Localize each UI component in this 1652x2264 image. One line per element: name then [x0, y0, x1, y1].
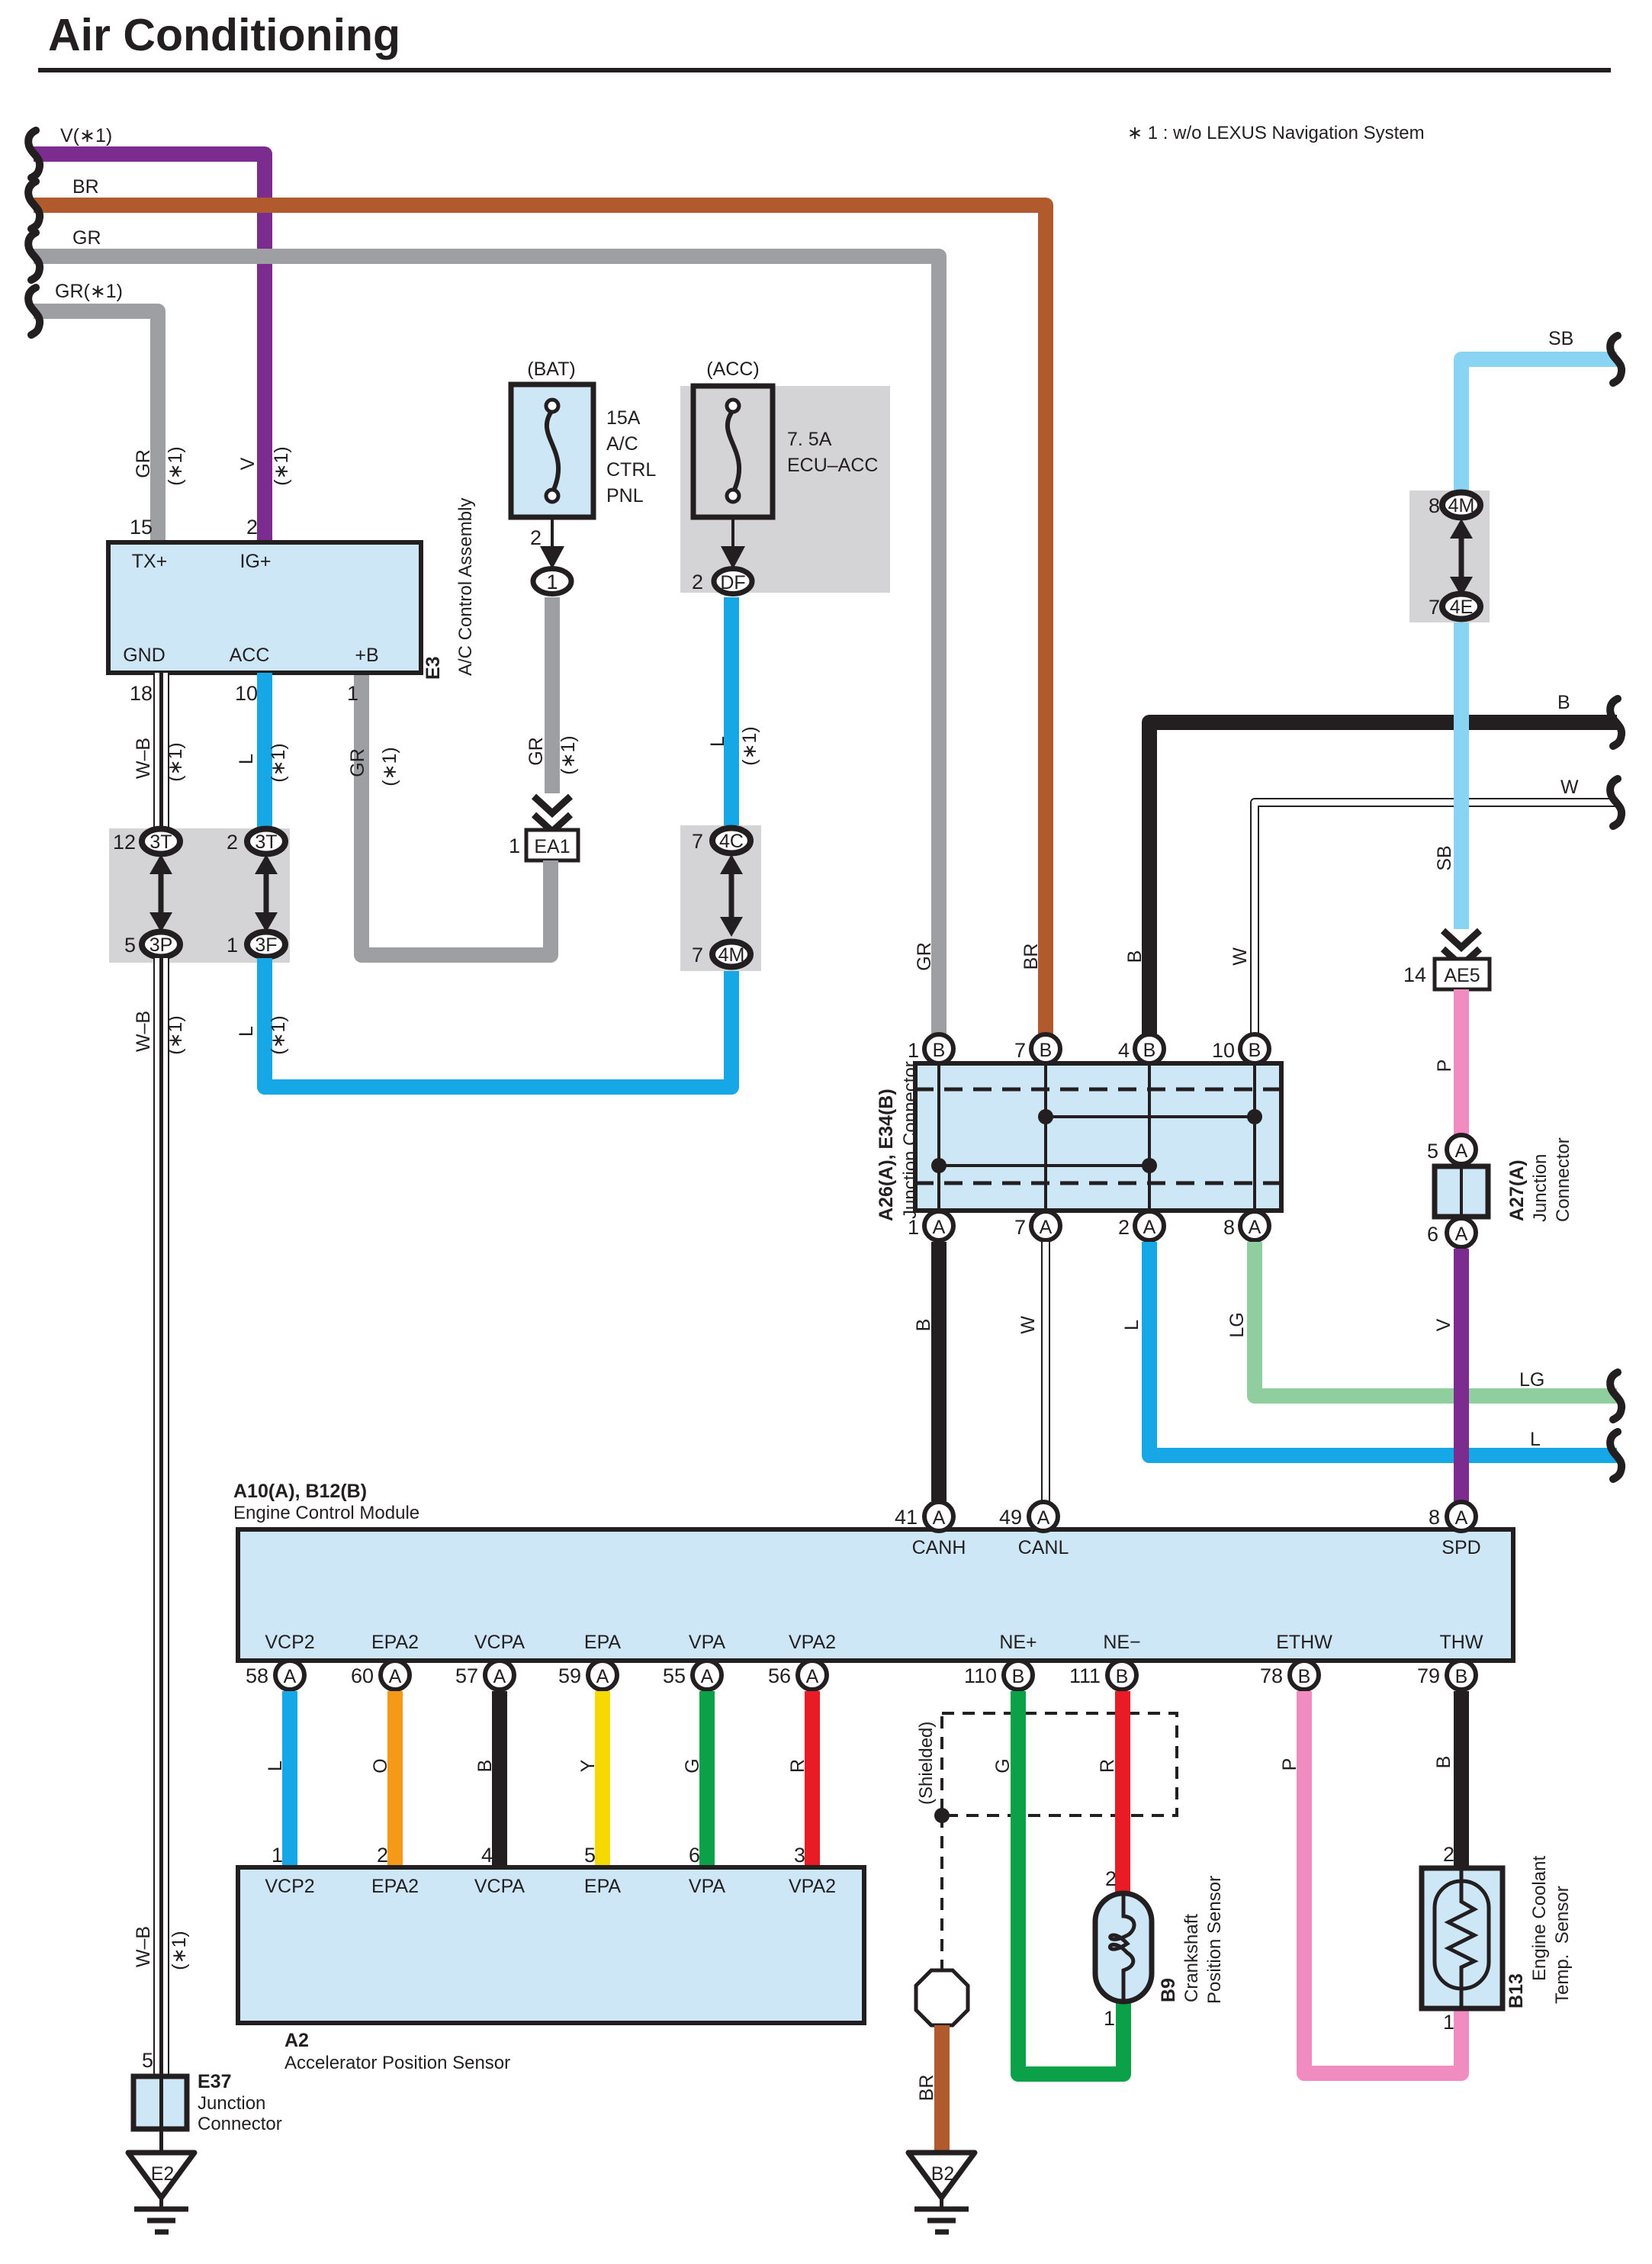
svg-text:IG+: IG+: [240, 551, 272, 572]
svg-text:2: 2: [1443, 1843, 1454, 1866]
svg-text:B: B: [1557, 692, 1570, 713]
svg-text:A10(A), B12(B): A10(A), B12(B): [233, 1481, 367, 1502]
svg-text:3P: 3P: [149, 934, 173, 956]
svg-text:B: B: [1116, 1666, 1129, 1687]
fuse 15A A/C CTRL PNL (BAT): [511, 359, 656, 517]
svg-text:BR: BR: [1020, 944, 1042, 970]
svg-text:79: 79: [1417, 1664, 1440, 1687]
svg-text:E3: E3: [423, 656, 444, 680]
svg-text:A/C Control Assembly: A/C Control Assembly: [455, 498, 476, 676]
wire W-B from 5(3P) down to E37: [133, 958, 190, 2076]
svg-text:(Shielded): (Shielded): [916, 1722, 937, 1805]
arrow between 4C and 4M: [720, 854, 743, 937]
svg-text:R: R: [1097, 1759, 1118, 1773]
E37 junction connector: [133, 2049, 282, 2134]
svg-text:4: 4: [481, 1844, 493, 1867]
svg-text:R: R: [787, 1759, 808, 1773]
svg-text:A: A: [1249, 1217, 1261, 1238]
pin 1(B): [908, 1034, 953, 1063]
svg-text:EPA: EPA: [584, 1632, 621, 1653]
pin 49(A) CANL: [999, 1502, 1058, 1531]
svg-text:7. 5A: 7. 5A: [787, 429, 832, 450]
svg-text:E2: E2: [151, 2163, 175, 2185]
svg-text:8: 8: [1429, 494, 1440, 517]
pin 2(A): [1118, 1211, 1164, 1240]
svg-text:5: 5: [1427, 1140, 1438, 1163]
wire GR gray from EA1 to E3 +B: [347, 673, 551, 955]
pin 79(B): [1417, 1661, 1476, 1690]
svg-text:V: V: [1433, 1318, 1454, 1331]
wire G green VPA: [682, 1691, 707, 1867]
ECM A10(A),B12(B) Engine Control Module box: [233, 1481, 1513, 1661]
svg-text:B9: B9: [1158, 1978, 1179, 2002]
wire P pink from AE5 to A27 5(A): [1434, 989, 1461, 1137]
internal bus 7(B)-10(B) with junction dots: [1038, 1109, 1262, 1124]
svg-text:B: B: [1012, 1666, 1025, 1687]
label V (*1) rotated at IG+ pin 2: [237, 446, 292, 486]
svg-text:1: 1: [347, 682, 358, 705]
svg-text:49: 49: [999, 1506, 1022, 1529]
svg-text:4: 4: [1118, 1039, 1130, 1062]
svg-text:8: 8: [1223, 1216, 1235, 1239]
svg-text:A: A: [933, 1217, 946, 1238]
svg-text:B13: B13: [1506, 1973, 1527, 2008]
svg-text:Engine Control Module: Engine Control Module: [233, 1503, 419, 1523]
wire W white from 7(A) to ECM 49(A): [1017, 1242, 1046, 1501]
octagon shield ground: [916, 1970, 968, 2025]
svg-text:A27(A): A27(A): [1506, 1159, 1528, 1221]
svg-text:4C: 4C: [719, 831, 744, 852]
pin 10(B): [1212, 1034, 1269, 1063]
wire O orange EPA2: [370, 1691, 395, 1867]
svg-text:G: G: [682, 1758, 703, 1773]
svg-text:7: 7: [1014, 1216, 1026, 1239]
svg-text:10: 10: [1212, 1039, 1235, 1062]
connector block 4C/4M gray panel: [680, 825, 761, 971]
svg-text:B: B: [1249, 1040, 1261, 1061]
svg-text:W–B: W–B: [133, 738, 154, 779]
svg-text:GR: GR: [133, 449, 154, 478]
svg-text:GR: GR: [525, 737, 547, 766]
svg-text:(∗1): (∗1): [169, 1931, 190, 1970]
svg-text:G: G: [992, 1758, 1014, 1773]
svg-text:CANH: CANH: [912, 1537, 966, 1558]
svg-text:1: 1: [1443, 2011, 1454, 2034]
arrow between 4M and 4E: [1450, 519, 1473, 597]
svg-text:2: 2: [1118, 1216, 1130, 1239]
svg-text:A: A: [284, 1666, 297, 1687]
svg-text:Accelerator Position Sensor: Accelerator Position Sensor: [284, 2053, 510, 2073]
wire GR(*1) gray from left break to E3 TX+: [28, 281, 158, 542]
svg-text:LG: LG: [1519, 1369, 1544, 1391]
svg-text:Junction: Junction: [198, 2093, 265, 2114]
wire to E2 ground: [159, 2129, 163, 2156]
svg-text:∗ 1 : w/o LEXUS Navigation Sys: ∗ 1 : w/o LEXUS Navigation System: [1127, 123, 1425, 143]
svg-text:SPD: SPD: [1441, 1537, 1480, 1558]
svg-text:(∗1): (∗1): [379, 747, 400, 786]
wire V purple from A27 6(A) to ECM 8(A) SPD: [1433, 1249, 1461, 1501]
pin 8(A): [1223, 1211, 1269, 1240]
wire B black VCPA: [474, 1691, 500, 1867]
svg-text:Connector: Connector: [198, 2114, 282, 2134]
svg-text:(∗1): (∗1): [558, 735, 579, 775]
svg-text:GR: GR: [72, 227, 101, 249]
svg-text:B: B: [913, 1319, 934, 1332]
svg-text:(∗1): (∗1): [165, 742, 186, 782]
svg-text:W: W: [1560, 777, 1579, 798]
svg-text:BR: BR: [916, 2075, 937, 2102]
pin 110(B): [964, 1661, 1033, 1690]
svg-text:Y: Y: [577, 1759, 599, 1772]
svg-text:5: 5: [124, 934, 136, 957]
svg-text:6: 6: [1427, 1223, 1438, 1246]
svg-text:B: B: [1040, 1040, 1053, 1061]
note: *1 w/o LEXUS Navigation System: [1127, 123, 1425, 143]
svg-text:+B: +B: [355, 645, 378, 666]
pin 56(A): [768, 1661, 827, 1690]
svg-text:A: A: [1455, 1224, 1468, 1245]
B13 Engine Coolant Temp. Sensor: [1422, 1856, 1573, 2008]
wire B black THW from 79(B) to B13 pin 2: [1433, 1691, 1461, 1870]
svg-text:B: B: [474, 1760, 496, 1773]
connector EA1: [509, 830, 578, 860]
svg-text:(BAT): (BAT): [527, 359, 575, 380]
wire lead from BAT fuse pin 2 with arrow: [530, 517, 564, 569]
arrow between 3T and 3F: [255, 854, 278, 932]
svg-text:ACC: ACC: [230, 645, 270, 666]
svg-text:GR: GR: [347, 748, 368, 777]
wire R red VPA2: [787, 1691, 812, 1867]
shield dashed box around NE+/NE- wires: [916, 1713, 1177, 1815]
svg-text:ETHW: ETHW: [1276, 1632, 1332, 1653]
svg-text:(∗1): (∗1): [271, 446, 292, 486]
pin 55(A): [663, 1661, 722, 1690]
wire BR brown from left break to junction 7(B): [28, 176, 1046, 1034]
wire LG light green from 8(A) to right break: [1226, 1242, 1621, 1420]
svg-text:L: L: [1530, 1429, 1541, 1450]
svg-text:W–B: W–B: [133, 1926, 154, 1967]
svg-text:LG: LG: [1226, 1312, 1248, 1337]
pin 60(A): [351, 1661, 410, 1690]
svg-text:A: A: [1455, 1507, 1468, 1529]
pin 111(B): [1069, 1661, 1136, 1690]
junction connector A27: [1427, 1135, 1573, 1247]
svg-text:A: A: [806, 1666, 819, 1687]
svg-text:A: A: [596, 1666, 609, 1687]
svg-text:AE5: AE5: [1444, 965, 1480, 986]
svg-text:56: 56: [768, 1664, 791, 1687]
svg-text:E37: E37: [198, 2071, 231, 2092]
svg-text:6: 6: [689, 1844, 700, 1867]
svg-text:Engine Coolant: Engine Coolant: [1529, 1856, 1550, 1981]
svg-text:EA1: EA1: [534, 836, 570, 857]
connector AE5: [1403, 959, 1490, 989]
svg-text:L: L: [236, 1026, 257, 1037]
svg-text:BR: BR: [72, 176, 99, 198]
svg-text:VPA2: VPA2: [789, 1876, 836, 1897]
svg-text:EPA: EPA: [584, 1876, 621, 1897]
svg-text:EPA2: EPA2: [371, 1876, 419, 1897]
svg-text:B: B: [1455, 1666, 1468, 1687]
wire P pink ETHW from 78(B) to B13 pin 1: [1279, 1691, 1461, 2073]
wire V(*1) purple from left break to E3 IG+: [28, 125, 265, 542]
svg-text:W–B: W–B: [133, 1011, 154, 1052]
svg-text:2: 2: [530, 526, 542, 549]
fuse 7.5A ECU-ACC (ACC) on gray panel: [680, 359, 890, 593]
svg-text:B: B: [1298, 1666, 1311, 1687]
svg-text:Junction: Junction: [1530, 1154, 1551, 1222]
svg-text:2: 2: [227, 831, 238, 854]
svg-text:CTRL: CTRL: [606, 459, 656, 481]
svg-text:W: W: [1017, 1316, 1039, 1334]
node DF oval pin 2: [692, 569, 752, 594]
svg-text:2: 2: [246, 516, 258, 539]
svg-text:NE−: NE−: [1103, 1632, 1140, 1653]
svg-text:58: 58: [246, 1664, 268, 1687]
svg-text:A26(A), E34(B): A26(A), E34(B): [876, 1089, 897, 1221]
svg-text:Junction Connector: Junction Connector: [900, 1061, 921, 1219]
svg-text:B: B: [1433, 1756, 1454, 1769]
svg-text:GND: GND: [123, 645, 166, 666]
svg-text:55: 55: [663, 1664, 686, 1687]
svg-text:A: A: [701, 1666, 714, 1687]
pin 58(A): [246, 1661, 304, 1690]
svg-text:B2: B2: [931, 2163, 955, 2185]
wire L cyan VCP2: [265, 1691, 290, 1867]
pin 57(A): [455, 1661, 514, 1690]
svg-text:2: 2: [692, 571, 703, 593]
connector 12(3T): [113, 829, 180, 854]
svg-text:SB: SB: [1434, 845, 1455, 870]
svg-text:VPA2: VPA2: [789, 1632, 836, 1653]
svg-text:18: 18: [130, 682, 153, 705]
connector 2(3T): [227, 829, 285, 854]
svg-text:A: A: [1143, 1217, 1156, 1238]
wire Y yellow EPA: [577, 1691, 603, 1867]
A2 Accelerator Position Sensor box: [238, 1867, 864, 2073]
pin 8(A) SPD: [1429, 1502, 1476, 1531]
svg-text:60: 60: [351, 1664, 374, 1687]
svg-text:CANL: CANL: [1018, 1537, 1069, 1558]
svg-text:NE+: NE+: [999, 1632, 1037, 1653]
svg-text:VPA: VPA: [689, 1876, 725, 1897]
svg-text:O: O: [370, 1758, 391, 1773]
svg-text:5: 5: [584, 1844, 596, 1867]
svg-text:15A: 15A: [606, 407, 641, 429]
svg-text:TX+: TX+: [132, 551, 168, 572]
svg-text:59: 59: [558, 1664, 581, 1687]
shield drain dashed line to octagon: [940, 1815, 943, 1970]
svg-text:Temp. Sensor: Temp. Sensor: [1552, 1886, 1573, 2004]
svg-text:W: W: [1229, 947, 1251, 966]
ground B2: [908, 2153, 975, 2232]
svg-text:Position Sensor: Position Sensor: [1204, 1876, 1225, 2004]
pin 59(A): [558, 1661, 617, 1690]
pin 4(B): [1118, 1034, 1164, 1063]
connector 5(3P): [124, 932, 180, 957]
svg-text:(∗1): (∗1): [268, 743, 289, 783]
svg-text:7: 7: [692, 830, 703, 853]
svg-text:(ACC): (ACC): [706, 359, 759, 380]
wire GR(*1) gray from node 1 to EA1: [525, 597, 579, 831]
svg-text:57: 57: [455, 1664, 478, 1687]
internal bus 1(B)-4(B) with junction dots: [931, 1158, 1157, 1173]
svg-text:B: B: [1143, 1040, 1156, 1061]
pin 41(A) CANH: [895, 1502, 953, 1531]
svg-text:7: 7: [1014, 1039, 1026, 1062]
svg-text:12: 12: [113, 831, 136, 854]
svg-text:1: 1: [272, 1844, 283, 1867]
wire L cyan from 1(3F) down right and up to 7(4M): [236, 958, 731, 1087]
wire B black from right break to junction 4(B): [1149, 692, 1621, 1034]
svg-text:VCP2: VCP2: [265, 1632, 314, 1653]
svg-text:(∗1): (∗1): [739, 726, 760, 766]
svg-text:78: 78: [1260, 1664, 1283, 1687]
wire B black from 1(A) to ECM 41(A): [913, 1242, 939, 1501]
junction dot on shield: [934, 1808, 950, 1823]
svg-text:GR: GR: [914, 942, 935, 971]
svg-text:1: 1: [509, 835, 520, 857]
svg-text:3F: 3F: [255, 934, 277, 956]
svg-text:VPA: VPA: [689, 1632, 725, 1653]
svg-text:A: A: [933, 1507, 946, 1529]
node 1 oval below BAT fuse: [533, 569, 571, 594]
connector 8(4M): [1429, 493, 1480, 518]
svg-text:A/C: A/C: [606, 433, 638, 455]
connector 7(4M): [692, 942, 750, 967]
svg-text:A: A: [1040, 1217, 1053, 1238]
svg-text:3T: 3T: [149, 831, 172, 853]
svg-text:1: 1: [227, 934, 238, 957]
svg-text:L: L: [265, 1761, 286, 1771]
svg-text:111: 111: [1069, 1664, 1101, 1687]
svg-text:Air Conditioning: Air Conditioning: [48, 10, 400, 60]
svg-text:P: P: [1279, 1758, 1300, 1771]
wire L cyan from ACC pin 10 down to connector 2(3T): [236, 673, 289, 828]
pin 7(A): [1014, 1211, 1060, 1240]
wire G green NE+ from 110(B) to B9 pin 1: [992, 1691, 1123, 2074]
svg-text:4M: 4M: [718, 944, 745, 966]
svg-text:4M: 4M: [1448, 495, 1475, 516]
ground E2: [128, 2153, 194, 2232]
svg-text:(∗1): (∗1): [165, 1015, 186, 1055]
wire GR gray from left break to junction 1(B): [28, 227, 939, 1034]
svg-text:ECU–ACC: ECU–ACC: [787, 455, 878, 476]
svg-text:SB: SB: [1548, 328, 1573, 349]
svg-text:5: 5: [142, 2049, 153, 2072]
wire BR brown to B2 ground: [916, 2025, 942, 2156]
B9 Crankshaft Position Sensor: [1095, 1876, 1225, 2004]
svg-text:VCP2: VCP2: [265, 1876, 314, 1897]
svg-text:Connector: Connector: [1553, 1137, 1573, 1222]
svg-text:V: V: [237, 457, 259, 470]
arrow between 3T and 3P: [149, 854, 172, 932]
junction connector A26(A),E34(B) box: [876, 1061, 1281, 1221]
svg-text:14: 14: [1403, 963, 1426, 986]
svg-text:(∗1): (∗1): [165, 446, 186, 486]
wire L cyan from DF to 4C: [707, 597, 760, 825]
svg-text:1: 1: [908, 1039, 919, 1062]
wire R red NE- from 111(B) to B9 pin 2: [1097, 1691, 1123, 1895]
svg-text:EPA2: EPA2: [371, 1632, 419, 1653]
E3 A/C Control Assembly box: [108, 498, 476, 680]
wire L cyan from 2(A) to right break: [1121, 1242, 1621, 1479]
svg-text:B: B: [1124, 950, 1146, 963]
svg-text:7: 7: [692, 944, 703, 966]
svg-text:A: A: [389, 1666, 402, 1687]
svg-text:THW: THW: [1440, 1632, 1483, 1653]
svg-text:7: 7: [1429, 596, 1440, 619]
svg-text:1: 1: [1104, 2007, 1115, 2030]
svg-text:B: B: [933, 1040, 946, 1061]
svg-text:2: 2: [1105, 1867, 1117, 1890]
pin 78(B): [1260, 1661, 1319, 1690]
connector block 4M/4E gray panel: [1409, 490, 1490, 622]
connector 1(3F): [227, 932, 285, 957]
svg-text:10: 10: [235, 682, 258, 705]
wire SB sky blue from right break down through 4M/4E to AE5: [1434, 328, 1621, 929]
svg-text:1: 1: [908, 1216, 919, 1239]
svg-text:110: 110: [964, 1664, 997, 1687]
label GR (*1) rotated at TX+ pin 15: [133, 446, 186, 486]
svg-text:A2: A2: [284, 2030, 309, 2051]
double chevron into AE5: [1443, 931, 1480, 966]
svg-text:3: 3: [794, 1844, 805, 1867]
svg-text:1: 1: [546, 571, 558, 593]
svg-text:8: 8: [1429, 1506, 1440, 1529]
svg-text:A: A: [1455, 1140, 1468, 1162]
svg-text:3T: 3T: [255, 831, 277, 853]
svg-text:41: 41: [895, 1506, 918, 1529]
svg-text:L: L: [1121, 1320, 1143, 1330]
svg-text:PNL: PNL: [606, 485, 644, 507]
svg-text:DF: DF: [720, 572, 745, 593]
title: Air Conditioning: [38, 10, 1611, 72]
svg-text:2: 2: [377, 1844, 388, 1867]
svg-text:GR(∗1): GR(∗1): [55, 281, 123, 302]
svg-text:V(∗1): V(∗1): [60, 125, 112, 146]
svg-text:VCPA: VCPA: [474, 1632, 525, 1653]
svg-text:VCPA: VCPA: [474, 1876, 525, 1897]
svg-text:P: P: [1434, 1060, 1455, 1073]
svg-text:L: L: [236, 754, 257, 764]
pin 7(B): [1014, 1034, 1060, 1063]
svg-text:Crankshaft: Crankshaft: [1181, 1914, 1202, 2002]
wire W-B from GND pin 18 down to connector 12(3T): [133, 673, 186, 828]
pin 1(A): [908, 1211, 953, 1240]
svg-text:15: 15: [130, 516, 153, 539]
svg-text:4E: 4E: [1450, 597, 1474, 618]
svg-text:L: L: [707, 736, 728, 747]
svg-text:A: A: [493, 1666, 506, 1687]
connector 7(4C): [692, 828, 750, 854]
wire W white from right break to junction 10(B): [1255, 777, 1621, 1034]
connector block 3T/3P/3F gray panel: [109, 828, 290, 963]
svg-text:A: A: [1037, 1507, 1050, 1529]
connector 7(4E): [1429, 594, 1480, 619]
svg-text:(∗1): (∗1): [268, 1015, 289, 1055]
